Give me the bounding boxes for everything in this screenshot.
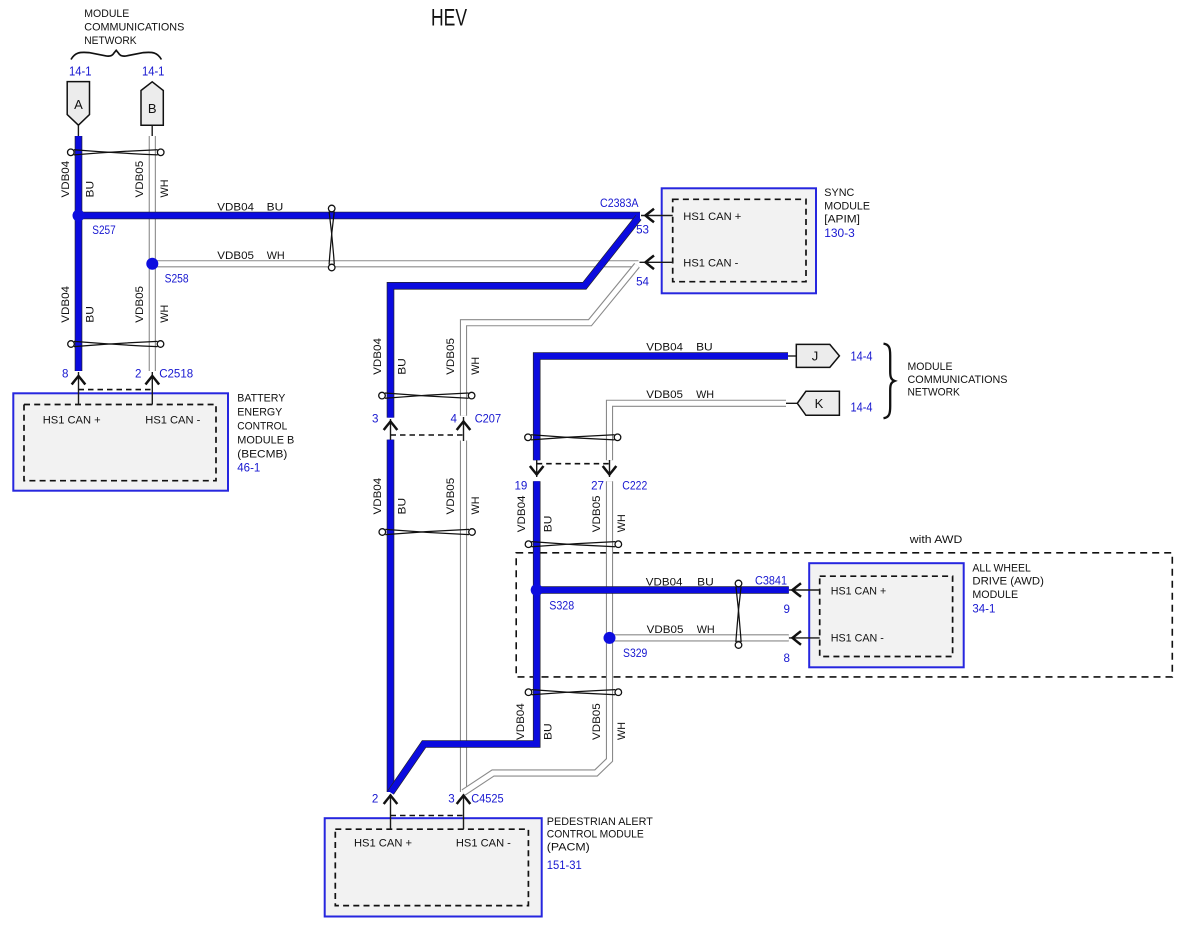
wire VDB05 WH from connector B down to C2518 pin 2 — [149, 136, 156, 371]
labels VDB04 BU / VDB05 WH above S257-S258 — [60, 161, 171, 198]
svg-text:WH: WH — [159, 305, 171, 323]
svg-text:MODULE B: MODULE B — [237, 435, 294, 447]
wire VDB04 BU from connector J down to C222 pin 19 — [537, 356, 788, 460]
svg-text:BU: BU — [543, 516, 555, 533]
svg-text:S328: S328 — [549, 600, 574, 613]
svg-text:C3841: C3841 — [755, 575, 787, 588]
svg-text:HS1 CAN -: HS1 CAN - — [831, 633, 884, 645]
connector C2383A pin 53 lead and arrow — [641, 215, 673, 217]
svg-text:BU: BU — [397, 358, 409, 375]
svg-text:K: K — [815, 396, 824, 411]
svg-text:VDB04: VDB04 — [60, 286, 72, 323]
wire VDB04 BU trunk from S257 to C2383A pin 53 — [79, 212, 641, 220]
labels VDB04 BU / VDB05 WH below C222 — [516, 496, 628, 533]
svg-text:[APIM]: [APIM] — [824, 214, 860, 226]
off-page connector J — [788, 344, 839, 367]
svg-text:COMMUNICATIONS: COMMUNICATIONS — [84, 22, 184, 34]
svg-text:MODULE: MODULE — [908, 361, 953, 373]
svg-text:WH: WH — [616, 722, 628, 740]
labels VDB04 BU / VDB05 WH below AWD box — [515, 703, 628, 740]
svg-text:3: 3 — [448, 793, 454, 806]
twisted-pair symbol above C2518 — [68, 341, 164, 348]
svg-text:WH: WH — [470, 357, 482, 375]
off-page connector B — [141, 82, 163, 136]
wire VDB05 WH from C207 pin 4 down to C4525 pin 3 — [460, 441, 467, 793]
AWD option boundary (dashed box) — [516, 553, 1172, 677]
svg-text:46-1: 46-1 — [237, 462, 260, 475]
svg-text:HS1 CAN +: HS1 CAN + — [683, 211, 741, 223]
svg-text:NETWORK: NETWORK — [84, 35, 137, 47]
svg-text:SYNC: SYNC — [824, 187, 854, 199]
twisted-pair symbol above C222 — [525, 434, 621, 441]
text BATTERY ENERGY CONTROL MODULE B (BECMB) 46-1 — [237, 393, 294, 475]
svg-text:MODULE: MODULE — [84, 8, 129, 20]
svg-text:14-4: 14-4 — [851, 399, 873, 414]
svg-text:MODULE: MODULE — [824, 200, 870, 212]
svg-text:VDB05: VDB05 — [217, 250, 254, 262]
text SYNC MODULE [APIM] 130-3 — [824, 187, 870, 240]
svg-text:VDB05: VDB05 — [445, 478, 457, 515]
svg-text:BU: BU — [696, 341, 713, 353]
svg-text:C222: C222 — [622, 480, 647, 493]
svg-text:CONTROL MODULE: CONTROL MODULE — [547, 828, 644, 840]
svg-text:BATTERY: BATTERY — [237, 393, 286, 405]
svg-text:8: 8 — [784, 652, 790, 665]
svg-text:with AWD: with AWD — [909, 534, 963, 546]
svg-text:ENERGY: ENERGY — [237, 407, 283, 419]
connector C222 pin 27 lead and arrow — [609, 460, 611, 477]
svg-text:A: A — [74, 97, 83, 112]
svg-text:2: 2 — [372, 793, 378, 806]
twisted-pair symbol below AWD dashed box — [525, 689, 621, 696]
svg-text:S329: S329 — [623, 647, 647, 660]
connector C2383A pin 54 lead and arrow — [640, 261, 673, 263]
svg-text:19: 19 — [514, 480, 527, 493]
svg-text:VDB05: VDB05 — [134, 286, 146, 323]
svg-text:VDB05: VDB05 — [445, 338, 457, 375]
svg-text:8: 8 — [62, 368, 68, 381]
svg-text:VDB04: VDB04 — [372, 338, 384, 375]
svg-text:C207: C207 — [475, 413, 501, 426]
labels VDB04 BU / VDB05 WH above C207 — [372, 338, 482, 375]
svg-text:34-1: 34-1 — [972, 603, 995, 616]
module U2 BATTERY ENERGY CONTROL MODULE B (BECMB) — [13, 393, 228, 490]
svg-text:VDB05: VDB05 — [591, 703, 603, 740]
text PEDESTRIAN ALERT CONTROL MODULE (PACM) 151-31 — [547, 816, 653, 872]
svg-text:HS1 CAN -: HS1 CAN - — [145, 415, 200, 427]
svg-text:HS1 CAN -: HS1 CAN - — [683, 258, 738, 270]
svg-text:HEV: HEV — [431, 5, 467, 32]
off-page connector A — [67, 82, 89, 136]
svg-text:B: B — [148, 101, 157, 116]
twisted-pair symbol below connectors A and B — [68, 149, 165, 156]
label VDB05 WH on K branch — [646, 389, 714, 401]
brace over connectors A and B — [71, 50, 161, 59]
svg-text:WH: WH — [267, 250, 285, 262]
svg-text:14-4: 14-4 — [851, 348, 873, 363]
wire VDB05 WH from connector K down to C222 pin 27 — [610, 403, 787, 460]
svg-text:54: 54 — [636, 276, 649, 289]
connector C207 pin 4 lead and arrow — [463, 417, 465, 441]
splice S258 — [146, 258, 158, 270]
svg-text:2: 2 — [135, 368, 141, 381]
svg-text:HS1 CAN +: HS1 CAN + — [43, 415, 101, 427]
svg-text:BU: BU — [543, 723, 555, 740]
label MODULE COMMUNICATIONS NETWORK (top left) — [84, 8, 184, 47]
svg-text:VDB05: VDB05 — [134, 161, 146, 198]
wire VDB04 BU from connector A down to C2518 pin 8 — [75, 136, 83, 371]
connector C4525 dashed link — [391, 815, 464, 817]
label VDB04 BU on trunk — [217, 201, 283, 213]
svg-text:HS1 CAN +: HS1 CAN + — [831, 586, 886, 598]
svg-text:C4525: C4525 — [471, 793, 504, 806]
wire VDB05 WH from splice S329 to C3841 pin 8 — [610, 634, 789, 641]
twisted-pair symbol at top of AWD dashed box — [525, 541, 621, 548]
connector C4525 pin 2 lead and arrow — [390, 794, 392, 829]
svg-text:VDB05: VDB05 — [646, 389, 683, 401]
splice S257 — [73, 210, 85, 222]
svg-text:PEDESTRIAN ALERT: PEDESTRIAN ALERT — [547, 816, 653, 828]
twisted-pair symbol on trunk pair near C2383A — [328, 205, 335, 271]
connector C2518 pin 8 lead and arrow — [78, 372, 80, 405]
wire VDB04 BU from C222 pin 19 through AWD box, elbow to C4525 pin 2 — [391, 481, 537, 792]
svg-text:151-31: 151-31 — [547, 859, 582, 872]
svg-text:53: 53 — [636, 224, 649, 237]
svg-text:WH: WH — [696, 389, 714, 401]
connector C222 pin 19 lead and arrow — [536, 460, 538, 477]
svg-text:BU: BU — [267, 201, 284, 213]
connector C222 dashed link — [537, 463, 610, 465]
wire VDB04 BU from splice S328 to C3841 pin 9 — [537, 586, 789, 594]
svg-text:CONTROL: CONTROL — [237, 421, 287, 433]
svg-text:WH: WH — [616, 514, 628, 532]
connector C2518 dashed link — [79, 389, 153, 391]
svg-text:COMMUNICATIONS: COMMUNICATIONS — [908, 374, 1008, 386]
svg-text:130-3: 130-3 — [824, 227, 855, 240]
svg-text:MODULE: MODULE — [972, 589, 1018, 601]
svg-text:C2518: C2518 — [159, 368, 193, 381]
wire VDB04 BU from C207 pin 3 down to C4525 pin 2 — [387, 440, 395, 792]
labels VDB04 BU / VDB05 WH above C2518 — [60, 286, 171, 323]
svg-text:14-1: 14-1 — [142, 64, 165, 79]
svg-text:VDB04: VDB04 — [646, 341, 683, 353]
svg-text:VDB05: VDB05 — [591, 496, 603, 533]
label VDB04 BU on S328 branch — [646, 577, 714, 589]
svg-text:C2383A: C2383A — [600, 197, 639, 210]
svg-text:NETWORK: NETWORK — [908, 387, 961, 399]
svg-text:27: 27 — [591, 480, 604, 493]
svg-text:HS1 CAN -: HS1 CAN - — [456, 838, 511, 850]
splice S328 — [531, 584, 543, 596]
module U4 PEDESTRIAN ALERT CONTROL MODULE (PACM) — [325, 818, 542, 916]
connector C207 pin 3 lead and arrow — [390, 419, 392, 440]
svg-text:VDB04: VDB04 — [515, 703, 527, 740]
svg-text:DRIVE (AWD): DRIVE (AWD) — [972, 576, 1044, 588]
module U3 ALL WHEEL DRIVE (AWD) MODULE — [809, 563, 964, 667]
svg-text:9: 9 — [784, 603, 790, 616]
svg-text:WH: WH — [697, 624, 715, 636]
svg-text:BU: BU — [697, 577, 714, 589]
svg-text:VDB04: VDB04 — [516, 496, 528, 533]
svg-text:VDB04: VDB04 — [217, 201, 254, 213]
brace right of connectors J and K — [884, 344, 895, 419]
svg-text:J: J — [812, 349, 819, 364]
connector C3841 pin 9 lead and arrow — [789, 589, 820, 591]
svg-text:S257: S257 — [92, 224, 115, 237]
splice S329 — [604, 632, 616, 644]
connector C207 dashed link — [391, 434, 464, 436]
svg-text:4: 4 — [451, 413, 458, 426]
svg-text:VDB04: VDB04 — [372, 478, 384, 515]
svg-text:ALL WHEEL: ALL WHEEL — [972, 563, 1030, 575]
connector C3841 pin 8 lead and arrow — [789, 637, 820, 639]
svg-text:VDB05: VDB05 — [647, 624, 684, 636]
svg-text:VDB04: VDB04 — [646, 577, 683, 589]
svg-text:HS1 CAN +: HS1 CAN + — [354, 838, 412, 850]
svg-text:WH: WH — [159, 180, 171, 198]
wire VDB04 BU branch diagonal down to C207 pin 3 — [391, 218, 639, 418]
labels VDB04 BU / VDB05 WH below C207 — [372, 478, 482, 515]
svg-text:WH: WH — [470, 497, 482, 515]
svg-text:3: 3 — [372, 413, 378, 426]
svg-text:14-1: 14-1 — [69, 64, 92, 79]
label VDB05 WH on trunk — [217, 250, 284, 262]
svg-text:BU: BU — [85, 181, 97, 198]
twisted-pair symbol above C207 — [379, 392, 475, 399]
wire VDB05 WH trunk from S258 to C2383A pin 54 — [152, 260, 638, 267]
connector C2518 pin 2 lead and arrow — [151, 372, 153, 405]
module U1 SYNC MODULE [APIM] — [662, 188, 816, 293]
label VDB05 WH on S329 branch — [647, 624, 715, 636]
svg-text:BU: BU — [397, 498, 409, 515]
twisted-pair symbol below C207 — [379, 529, 475, 536]
off-page connector K — [786, 391, 839, 415]
connector C4525 pin 3 lead and arrow — [463, 794, 465, 829]
text ALL WHEEL DRIVE (AWD) MODULE 34-1 — [972, 563, 1044, 616]
svg-text:(BECMB): (BECMB) — [237, 449, 287, 461]
twisted-pair symbol inside AWD box on C3841 pigtails — [735, 580, 742, 648]
svg-text:(PACM): (PACM) — [547, 841, 590, 853]
label VDB04 BU on J branch — [646, 341, 712, 353]
svg-text:BU: BU — [85, 306, 97, 323]
svg-text:S258: S258 — [165, 272, 189, 285]
label MODULE COMMUNICATIONS NETWORK (right of J K) — [908, 361, 1008, 399]
wire VDB05 WH from C222 pin 27 through AWD box to C4525 pin 3 — [464, 481, 610, 792]
svg-text:VDB04: VDB04 — [60, 161, 72, 198]
wire VDB05 WH branch diagonal down to C207 pin 4 — [464, 265, 638, 416]
